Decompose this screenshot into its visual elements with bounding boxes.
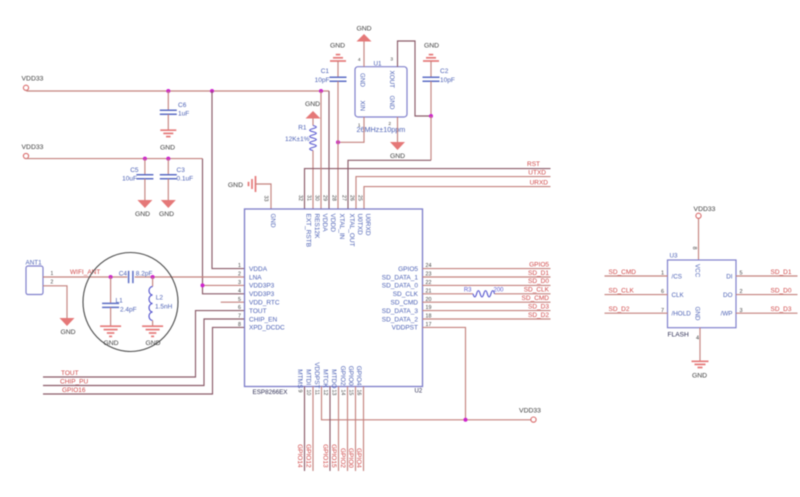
svg-text:VDD_RTC: VDD_RTC bbox=[249, 300, 280, 307]
svg-text:10uF: 10uF bbox=[122, 176, 137, 183]
svg-text:XPD_DCDC: XPD_DCDC bbox=[249, 325, 285, 332]
svg-text:10: 10 bbox=[305, 390, 311, 396]
resistor R1 12K 1% bbox=[310, 126, 317, 151]
svg-text:GND: GND bbox=[305, 101, 320, 108]
wire C2 node to XTAL_OUT pin 27 bbox=[430, 116, 432, 160]
capacitor C4 8.2pF bbox=[129, 271, 133, 283]
node SD_CMD (flash left) bbox=[605, 275, 668, 277]
flash U3 body bbox=[668, 260, 737, 328]
ground below C3 bbox=[161, 200, 176, 208]
svg-text:1.5nH: 1.5nH bbox=[155, 304, 173, 311]
junction L2 tap bbox=[151, 275, 155, 279]
wire flash GND bbox=[699, 328, 701, 361]
svg-text:GND: GND bbox=[103, 340, 118, 347]
wire VDD33 to VDD3P3 pins 3,4 bbox=[203, 159, 245, 294]
wire VDD33 to VDDA pin 1 bbox=[212, 91, 245, 269]
svg-text:0.1uF: 0.1uF bbox=[177, 176, 194, 183]
wire GPIO12 from pin 10 bbox=[312, 387, 314, 472]
svg-text:2.4pF: 2.4pF bbox=[120, 306, 137, 313]
svg-text:CLK: CLK bbox=[672, 292, 685, 299]
svg-text:L1: L1 bbox=[116, 298, 124, 305]
svg-text:3: 3 bbox=[238, 280, 241, 286]
svg-text:GND: GND bbox=[692, 373, 707, 380]
svg-text:11: 11 bbox=[313, 390, 319, 396]
svg-text:MTDI: MTDI bbox=[305, 369, 312, 385]
svg-text:GND: GND bbox=[228, 182, 243, 189]
wire VDD33 rail 2 bbox=[26, 158, 203, 160]
ground below L1 bbox=[100, 326, 121, 336]
svg-text:SD_D2: SD_D2 bbox=[609, 306, 630, 313]
svg-text:GND: GND bbox=[269, 214, 276, 228]
svg-text:7: 7 bbox=[238, 314, 241, 320]
svg-text:8: 8 bbox=[238, 322, 241, 328]
svg-text:/WP: /WP bbox=[721, 311, 733, 318]
ground below L2 bbox=[142, 326, 163, 336]
svg-text:VDDA: VDDA bbox=[321, 214, 328, 233]
svg-text:15: 15 bbox=[347, 390, 353, 396]
svg-text:CHIP_EN: CHIP_EN bbox=[249, 316, 277, 323]
svg-text:3: 3 bbox=[390, 57, 393, 63]
wire TOUT to pin 6 bbox=[43, 311, 245, 377]
svg-text:WIFI_ANT: WIFI_ANT bbox=[70, 269, 100, 276]
svg-text:26: 26 bbox=[348, 195, 354, 201]
wire GPIO15 from pin 13 bbox=[338, 387, 340, 472]
svg-text:SD_D3: SD_D3 bbox=[528, 303, 549, 310]
svg-text:12K±1%: 12K±1% bbox=[285, 136, 310, 143]
svg-text:RES12K: RES12K bbox=[313, 214, 320, 240]
svg-text:1: 1 bbox=[51, 271, 54, 277]
junction VDD3P3 branch bbox=[201, 283, 205, 287]
wire GPIO0 from pin 15 bbox=[355, 387, 357, 472]
svg-text:SD_D0: SD_D0 bbox=[771, 287, 792, 294]
svg-text:GND: GND bbox=[388, 96, 395, 110]
ground below C5 bbox=[137, 200, 152, 208]
svg-text:LNA: LNA bbox=[249, 274, 262, 281]
svg-text:SD_CLK: SD_CLK bbox=[393, 291, 419, 298]
svg-text:MTMS: MTMS bbox=[296, 369, 303, 389]
svg-text:GPIO0: GPIO0 bbox=[347, 366, 354, 386]
svg-text:33: 33 bbox=[262, 196, 268, 202]
svg-text:GPIO0: GPIO0 bbox=[347, 448, 354, 468]
svg-text:10pF: 10pF bbox=[440, 77, 455, 84]
svg-text:GPIO15: GPIO15 bbox=[330, 444, 337, 468]
wire VDD_RTC stub pin 5 bbox=[221, 301, 245, 303]
svg-text:32: 32 bbox=[297, 195, 303, 201]
svg-text:MTDO: MTDO bbox=[330, 369, 337, 388]
svg-text:SD_CLK: SD_CLK bbox=[609, 287, 635, 294]
svg-text:2: 2 bbox=[238, 272, 241, 278]
capacitor C5 10uF bbox=[144, 159, 146, 175]
capacitor C2 10pF bbox=[430, 61, 432, 77]
wire CHIP_PU to pin 7 bbox=[43, 319, 245, 386]
svg-text:FLASH: FLASH bbox=[668, 332, 689, 339]
matching network ellipse bbox=[83, 253, 178, 352]
node SD_CLK bbox=[423, 293, 474, 295]
svg-text:MTCK: MTCK bbox=[322, 369, 329, 388]
svg-text:1uF: 1uF bbox=[178, 111, 189, 118]
svg-text:16: 16 bbox=[355, 390, 361, 396]
junction L1 tap bbox=[109, 275, 113, 279]
svg-text:VDD33: VDD33 bbox=[22, 76, 44, 83]
node SD_D3 (flash right) bbox=[736, 312, 798, 314]
junction XIN node bbox=[336, 140, 340, 144]
svg-text:TOUT: TOUT bbox=[249, 308, 267, 315]
svg-text:R1: R1 bbox=[298, 125, 307, 132]
svg-text:GND: GND bbox=[424, 43, 439, 50]
node SD_D3 bbox=[423, 310, 551, 312]
junction C2 XOUT node bbox=[429, 114, 433, 118]
wire pin33 GND bbox=[256, 184, 272, 209]
svg-text:SD_CMD: SD_CMD bbox=[391, 300, 419, 307]
node RST bbox=[305, 169, 551, 209]
node SD_D2 (flash left) bbox=[605, 312, 668, 314]
capacitor L1 2.4pF bbox=[110, 277, 112, 303]
node SD_D0 bbox=[423, 284, 551, 286]
svg-text:GND: GND bbox=[159, 211, 174, 218]
svg-text:U3: U3 bbox=[670, 253, 679, 260]
svg-text:GPIO4: GPIO4 bbox=[355, 448, 362, 468]
wire VDDPST pin 11 to VDD33 bbox=[322, 387, 532, 420]
svg-text:29: 29 bbox=[321, 195, 327, 201]
wire VDDD pin 29 bbox=[328, 91, 330, 209]
svg-text:25: 25 bbox=[356, 195, 362, 201]
svg-text:RST: RST bbox=[527, 161, 540, 168]
wire XIN node to XTAL_IN pin 28 bbox=[337, 142, 339, 209]
svg-text:5: 5 bbox=[238, 297, 241, 303]
svg-text:1: 1 bbox=[358, 123, 361, 129]
svg-text:GND: GND bbox=[359, 73, 366, 87]
svg-text:URXD: URXD bbox=[530, 180, 549, 187]
wire R1 to RES12K pin 31 bbox=[312, 151, 314, 210]
svg-text:EXT_RSTB: EXT_RSTB bbox=[305, 214, 312, 248]
node SD_D2 bbox=[423, 318, 551, 320]
svg-text:XOUT: XOUT bbox=[388, 71, 395, 89]
svg-text:SD_CLK: SD_CLK bbox=[524, 287, 550, 294]
crystal U1 26MHz bbox=[355, 67, 407, 117]
svg-text:U0RXD: U0RXD bbox=[364, 214, 371, 236]
wire GPIO2 from pin 14 bbox=[347, 387, 349, 472]
wire VDDA pin 30 bbox=[320, 91, 322, 209]
junction rail1-VDDA branch bbox=[210, 89, 214, 93]
svg-text:VDD33: VDD33 bbox=[694, 206, 716, 213]
junction VDDPST VDD33 node bbox=[464, 418, 468, 422]
svg-text:SD_D2: SD_D2 bbox=[528, 312, 549, 319]
node SD_D1 bbox=[423, 276, 551, 278]
svg-text:GND: GND bbox=[145, 340, 160, 347]
ground below flash bbox=[692, 361, 709, 367]
svg-text:L2: L2 bbox=[156, 295, 164, 302]
svg-text:SD_CMD: SD_CMD bbox=[609, 269, 637, 276]
svg-text:VDD33: VDD33 bbox=[22, 144, 44, 151]
svg-text:SD_D1: SD_D1 bbox=[528, 270, 549, 277]
svg-text:13: 13 bbox=[330, 390, 336, 396]
node SD_CMD bbox=[423, 301, 551, 303]
svg-text:SD_DATA_1: SD_DATA_1 bbox=[382, 274, 419, 281]
svg-text:12: 12 bbox=[322, 390, 328, 396]
svg-text:6: 6 bbox=[238, 305, 241, 311]
svg-text:XTAL_IN: XTAL_IN bbox=[338, 214, 345, 240]
ground below crystal pin 2 bbox=[397, 117, 399, 142]
junction rail1-C6 bbox=[166, 89, 170, 93]
wire crystal XIN down bbox=[338, 117, 364, 142]
svg-text:C2: C2 bbox=[440, 68, 449, 75]
node SD_D0 (flash right) bbox=[736, 294, 798, 296]
svg-text:VCC: VCC bbox=[693, 264, 700, 278]
svg-text:GND: GND bbox=[60, 329, 75, 336]
wire GPIO13 from pin 12 bbox=[329, 387, 331, 472]
svg-text:8: 8 bbox=[691, 247, 697, 250]
svg-text:GPIO16: GPIO16 bbox=[62, 387, 86, 394]
svg-text:UTXD: UTXD bbox=[528, 170, 546, 177]
svg-text:GPIO13: GPIO13 bbox=[321, 444, 328, 468]
svg-text:VDDA: VDDA bbox=[249, 266, 268, 273]
svg-text:/HOLD: /HOLD bbox=[672, 311, 692, 318]
wire GPIO4 from pin 16 bbox=[363, 387, 365, 472]
wire GPIO16 to pin 8 bbox=[43, 327, 245, 394]
node GPIO5 bbox=[423, 268, 551, 270]
resistor R3 200 bbox=[473, 291, 495, 297]
svg-text:2: 2 bbox=[388, 121, 391, 127]
svg-text:GPIO12: GPIO12 bbox=[304, 444, 311, 468]
svg-text:VDDD: VDDD bbox=[329, 214, 336, 233]
svg-text:4: 4 bbox=[358, 57, 361, 63]
wire ANT1 pin2 to ground bbox=[43, 286, 67, 318]
svg-text:4: 4 bbox=[238, 288, 241, 294]
capacitor C6 1uF bbox=[167, 91, 169, 110]
svg-text:9: 9 bbox=[296, 390, 302, 393]
svg-text:GND: GND bbox=[160, 145, 175, 152]
wire C4 to LNA pin 2 bbox=[135, 276, 245, 278]
wire VDDPST pin 17 to VDD33 bbox=[423, 327, 466, 419]
ground below C6 bbox=[160, 130, 176, 136]
svg-text:U2: U2 bbox=[415, 389, 423, 395]
junction rail2-C3 bbox=[166, 157, 170, 161]
svg-text:SD_DATA_2: SD_DATA_2 bbox=[382, 316, 419, 323]
wire GPIO14 from pin 9 bbox=[304, 387, 306, 472]
svg-text:GPIO14: GPIO14 bbox=[296, 444, 303, 468]
node SD_CLK (flash left) bbox=[605, 294, 668, 296]
svg-text:R3: R3 bbox=[464, 287, 472, 293]
ground below ANT1 bbox=[60, 318, 75, 326]
node SD_D1 (flash right) bbox=[736, 275, 798, 277]
svg-text:C4: C4 bbox=[119, 271, 128, 278]
svg-text:GPIO5: GPIO5 bbox=[398, 266, 418, 273]
svg-text:U0TXD: U0TXD bbox=[356, 214, 363, 236]
svg-text:SD_DATA_3: SD_DATA_3 bbox=[382, 308, 419, 315]
svg-text:GPIO4: GPIO4 bbox=[355, 366, 362, 386]
svg-text:200: 200 bbox=[494, 287, 505, 293]
svg-text:SD_D0: SD_D0 bbox=[528, 278, 549, 285]
svg-text:U1: U1 bbox=[374, 61, 383, 68]
svg-text:VDD3P3: VDD3P3 bbox=[249, 291, 275, 298]
svg-text:14: 14 bbox=[339, 390, 345, 396]
wire VDD33 rail 1 bbox=[26, 89, 329, 92]
power flag VDD33 (bottom) bbox=[531, 417, 536, 422]
svg-text:TOUT: TOUT bbox=[61, 370, 79, 377]
svg-text:SD_CMD: SD_CMD bbox=[522, 295, 550, 302]
svg-text:CHIP_PU: CHIP_PU bbox=[60, 379, 88, 386]
svg-text:C3: C3 bbox=[177, 167, 186, 174]
wire VDD33 to flash VCC bbox=[698, 218, 700, 260]
inductor L2 1.5nH bbox=[152, 277, 154, 287]
svg-text:GND: GND bbox=[135, 211, 150, 218]
svg-text:4: 4 bbox=[696, 336, 699, 342]
svg-text:ESP8266EX: ESP8266EX bbox=[253, 389, 289, 396]
svg-text:DO: DO bbox=[723, 292, 733, 299]
svg-text:GND: GND bbox=[330, 43, 345, 50]
wire crystal pin4 to ground bbox=[363, 42, 365, 67]
antenna ANT1 bbox=[26, 266, 43, 295]
svg-text:/CS: /CS bbox=[672, 273, 683, 280]
svg-text:XTAL_OUT: XTAL_OUT bbox=[348, 214, 355, 247]
svg-text:GND: GND bbox=[693, 307, 700, 321]
svg-text:C1: C1 bbox=[321, 68, 330, 75]
svg-text:ANT1: ANT1 bbox=[26, 260, 43, 267]
svg-text:30: 30 bbox=[313, 195, 319, 201]
svg-text:C5: C5 bbox=[130, 167, 139, 174]
svg-text:27: 27 bbox=[340, 195, 346, 201]
capacitor C1 10pF bbox=[337, 61, 339, 77]
wire crystal XOUT loop to C2 node bbox=[398, 41, 432, 116]
svg-text:GPIO2: GPIO2 bbox=[339, 448, 346, 468]
svg-text:GPIO2: GPIO2 bbox=[339, 366, 346, 386]
svg-text:1: 1 bbox=[238, 263, 241, 269]
svg-text:VDD3P3: VDD3P3 bbox=[249, 283, 275, 290]
svg-text:C6: C6 bbox=[178, 102, 187, 109]
svg-text:GND: GND bbox=[356, 26, 371, 33]
svg-text:31: 31 bbox=[305, 195, 311, 201]
svg-text:SD_D3: SD_D3 bbox=[771, 306, 792, 313]
svg-text:8.2pF: 8.2pF bbox=[136, 271, 153, 278]
node UTXD bbox=[356, 177, 551, 209]
wire WIFI_ANT to C4 bbox=[43, 276, 127, 278]
svg-text:10pF: 10pF bbox=[315, 77, 330, 84]
svg-text:SD_DATA_0: SD_DATA_0 bbox=[382, 283, 419, 290]
svg-text:VDDPST: VDDPST bbox=[313, 362, 320, 388]
svg-text:VDD33: VDD33 bbox=[519, 408, 541, 415]
svg-text:28: 28 bbox=[330, 195, 336, 201]
svg-text:XIN: XIN bbox=[359, 101, 366, 112]
junction rail2-C5 bbox=[143, 157, 147, 161]
svg-text:GPIO5: GPIO5 bbox=[529, 261, 549, 268]
op-amp U2 ESP8266EX IC body bbox=[245, 209, 423, 387]
svg-text:SD_D1: SD_D1 bbox=[771, 269, 792, 276]
node URXD bbox=[364, 187, 551, 209]
capacitor C3 0.1uF bbox=[167, 159, 169, 175]
svg-text:DI: DI bbox=[726, 273, 733, 280]
svg-text:GND: GND bbox=[390, 153, 405, 160]
junction rail1-pin30 bbox=[319, 89, 323, 93]
svg-text:VDDPST: VDDPST bbox=[392, 325, 418, 332]
svg-text:2: 2 bbox=[51, 280, 54, 286]
